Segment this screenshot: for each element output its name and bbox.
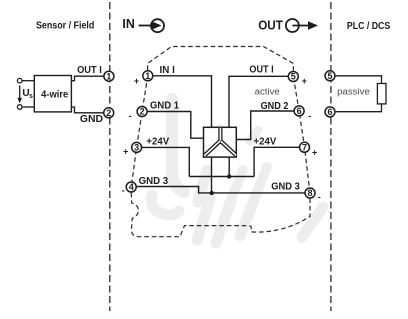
svg-text:OUT I: OUT I [77,65,102,76]
voltage source Us terminal top [17,78,22,83]
4-wire transmitter box [34,76,71,112]
OUT symbol [258,17,318,32]
svg-text:OUT I: OUT I [249,65,273,76]
isolator U1 (galvanic isolation symbol) [204,127,237,157]
wire load resistor to PLC terminal 6 [336,104,382,112]
PLC side terminal 6 [325,107,335,117]
svg-text:4: 4 [129,182,134,192]
wire IN I: module terminal 1 to isolator top-left pin [148,76,212,128]
module terminal 5 [288,72,298,82]
svg-text:1: 1 [106,71,111,81]
svg-text:Sensor / Field: Sensor / Field [36,20,94,31]
module terminal 1 [143,71,153,81]
junction dot 24V bus [227,174,231,178]
svg-text:3: 3 [134,143,139,153]
svg-text:+: + [302,76,307,86]
module terminal 8 [305,188,315,198]
svg-text:6: 6 [297,106,302,116]
wire source top to 4-wire box [22,80,35,82]
svg-text:-: - [129,111,132,121]
svg-text:IN: IN [122,16,134,31]
wire source bottom to 4-wire box [22,106,35,108]
svg-text:-: - [318,192,321,202]
module terminal 3 [132,142,142,152]
svg-text:OUT: OUT [258,17,283,32]
field terminal 1 [104,71,114,81]
svg-text:-: - [308,111,311,121]
wire +24V right: module terminal 7 down to 24V bus [254,147,304,176]
svg-text:-: - [122,185,125,195]
svg-text:7: 7 [302,143,307,153]
wire OUT I: isolator top-right pin to module terminal 5 [229,76,293,128]
svg-text:+24V: +24V [254,136,277,147]
voltage source Us terminal bottom [17,105,22,110]
svg-text:active: active [255,86,280,97]
svg-text:+24V: +24V [146,136,169,147]
svg-text:2: 2 [106,108,111,118]
PLC side terminal 5 [325,71,335,81]
svg-text:IN I: IN I [160,65,176,76]
svg-text:8: 8 [307,188,312,198]
svg-text:1: 1 [145,71,150,81]
svg-text:GND 2: GND 2 [261,101,289,112]
svg-text:2: 2 [140,107,145,117]
module terminal 2 [137,107,147,117]
watermark (faint logo) [151,99,323,243]
module terminal 6 [294,106,304,116]
wire 24V bus [189,176,254,178]
wire GND 3: module terminal 4 to GND3 bus step [131,187,304,193]
svg-text:GND 3: GND 3 [271,182,300,193]
wire +24V left: module terminal 3 down to 24V bus [137,147,190,176]
module terminal 7 [300,142,310,152]
wire 4-wire box to field terminal 1 [71,76,106,81]
wire 4-wire box to field terminal 2 [71,107,106,113]
svg-text:GND 1: GND 1 [150,101,179,112]
module terminal 4 [126,182,136,192]
wire GND 2: module terminal 6 to isolator right pin [236,111,299,140]
IN symbol [122,16,164,32]
svg-text:+: + [123,146,128,156]
svg-text:4-wire: 4-wire [41,90,69,101]
module dashed outline [131,47,310,237]
wire PLC terminal 5 to load resistor [336,76,382,84]
svg-text:passive: passive [337,87,370,98]
svg-text:GND: GND [80,114,103,125]
load resistor [377,84,386,104]
separator dashed line (right, OUT | PLC/DCS) [330,2,332,311]
Us arrow [19,86,21,100]
wire isolator bottom-right pin to 24V bus [228,156,230,177]
wire GND 1: module terminal 2 to isolator left pin [142,112,204,139]
svg-text:5: 5 [291,72,296,82]
svg-text:6: 6 [327,107,332,117]
svg-text:s: s [29,93,33,100]
wire isolator bottom-left pin to GND3 bus [211,156,213,193]
junction dot GND3 bus [210,191,214,195]
svg-text:GND 3: GND 3 [139,176,169,187]
field terminal 2 [104,108,114,118]
svg-text:+: + [312,147,317,157]
separator dashed line (left, Sensor/Field | IN) [109,2,111,311]
svg-text:+: + [134,76,139,86]
svg-text:PLC / DCS: PLC / DCS [347,21,391,32]
svg-text:5: 5 [327,71,332,81]
